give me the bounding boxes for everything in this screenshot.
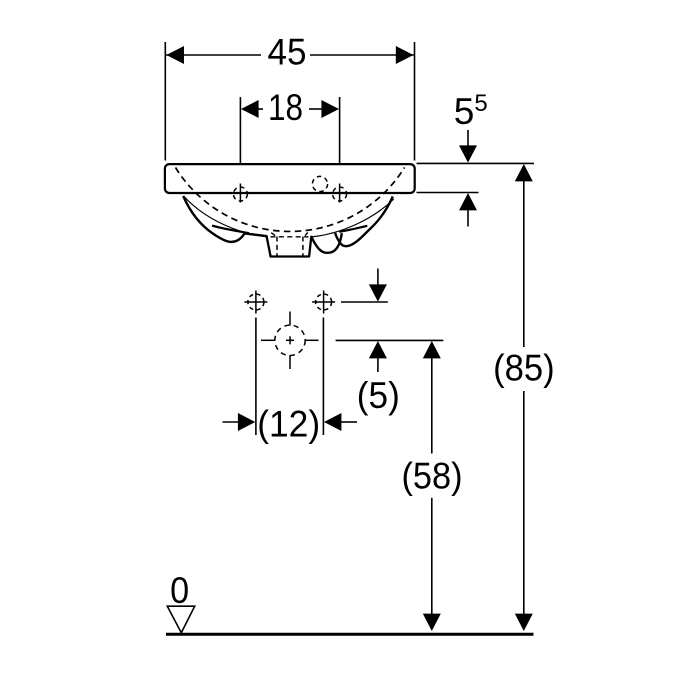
left bracket lip (212, 226, 249, 234)
bowl inner thin contour (185, 197, 394, 238)
apron bottom reference line (417, 192, 479, 194)
dimension 5.5: lower arrow (pointing up) (459, 193, 477, 210)
bowl outer contour right (335, 197, 393, 247)
wall anchor left: crosshair (244, 301, 267, 303)
tap hole left: centerline (239, 184, 241, 203)
dimension 45: right extension line (414, 42, 416, 161)
dimension (12): left extension line (255, 318, 257, 436)
dimension 45: left arrowhead (166, 46, 184, 64)
dimension 18: dimension line (255, 108, 263, 110)
dimension (5): upper arrow (pointing down) (377, 269, 379, 288)
floor line (166, 633, 534, 636)
svg-text:45: 45 (268, 32, 307, 73)
dimension 45: dimension line (166, 54, 261, 56)
tap hole right: centerline (339, 184, 341, 203)
siphon hidden edge left (dashed) (276, 237, 278, 256)
dimension (12): left arrow (pointing right) (223, 421, 241, 423)
dimension (58): upper arrow (pointing up) (423, 341, 441, 358)
datum triangle (167, 606, 194, 633)
dimension (5): lower reference line (336, 339, 444, 341)
svg-text:(5): (5) (357, 375, 400, 416)
dimension (5): lower arrow (pointing up) (369, 341, 387, 358)
tap hole right: dashed circle (333, 187, 347, 201)
dimension (12): right arrow (pointing left) (324, 413, 341, 431)
right foot pocket beside siphon (311, 233, 342, 253)
dimension (85): lower line and arrow (pointing down) (523, 391, 525, 614)
siphon cover box (266, 235, 311, 256)
washbasin apron (front rectangle) (165, 164, 415, 193)
dimension (5): upper reference line (341, 301, 388, 303)
wall anchor right: crosshair (312, 301, 335, 303)
dimension 18: left arrowhead (241, 100, 259, 118)
basin rim hidden arc (dashed) (176, 168, 405, 232)
wall anchor left: dashed circle (248, 294, 264, 310)
wall anchor right: dashed circle (316, 294, 332, 310)
overflow pre-punch hole (dashed circle) (312, 176, 327, 191)
siphon hidden edge right (dashed) (302, 237, 304, 256)
dimension 18: right arrowhead (321, 100, 339, 118)
svg-text:(12): (12) (257, 403, 320, 444)
dimension 45: left extension line (164, 42, 166, 161)
drain center: horizontal centerline (261, 339, 275, 341)
dimension 18: right extension line (339, 97, 341, 180)
siphon hidden bowl edge (dashed) (271, 236, 309, 238)
svg-text:18: 18 (268, 87, 303, 128)
bowl outer contour left (183, 196, 267, 242)
top surface reference line (417, 162, 535, 164)
dimension 5.5: upper arrow (pointing down) (467, 130, 469, 147)
dimension 45: right arrowhead (396, 46, 414, 64)
dimension (12): right extension line (322, 318, 324, 436)
tap hole left: dashed circle (233, 187, 247, 201)
drain center: dashed circle (275, 325, 305, 355)
dimension (85): upper arrow (pointing up) (515, 164, 533, 181)
dimension (58): lower line and arrow (pointing down) (431, 498, 433, 614)
right bracket lip (339, 226, 367, 232)
svg-text:(85): (85) (493, 348, 555, 389)
tick left of siphon (271, 233, 275, 236)
tick right of siphon (305, 232, 308, 235)
svg-text:0: 0 (170, 570, 189, 611)
dimension 18: left extension line (239, 97, 241, 180)
drain center: vertical centerline (289, 312, 291, 326)
svg-text:(58): (58) (402, 455, 463, 496)
